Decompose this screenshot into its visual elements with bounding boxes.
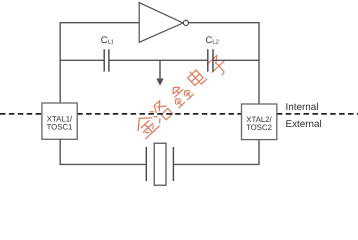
svg-text:TOSC2: TOSC2 bbox=[246, 123, 272, 132]
wire: right bottom (XTAL2 to crystal) bbox=[173, 140, 259, 165]
svg-text:Internal: Internal bbox=[286, 102, 319, 113]
wire: capacitor rail right segment bbox=[213, 59, 259, 61]
ground bbox=[156, 60, 163, 86]
inverter U1 bbox=[139, 3, 188, 43]
char 子 bbox=[206, 54, 231, 79]
wire: top-left horizontal (XTAL1 net to inverter input) bbox=[60, 22, 139, 24]
svg-text:External: External bbox=[286, 119, 322, 130]
wire: capacitor rail middle segment bbox=[109, 59, 208, 61]
crystal XTAL bbox=[146, 143, 173, 185]
capacitor CL1 bbox=[104, 49, 109, 71]
dashed internal/external boundary bbox=[0, 113, 358, 115]
wire: top-right horizontal (inverter output to XTAL2 net) bbox=[188, 22, 259, 24]
svg-text:TOSC1: TOSC1 bbox=[47, 122, 73, 131]
char 鑫 bbox=[166, 81, 193, 108]
char 电 bbox=[186, 67, 207, 88]
pin box XTAL2/TOSC2 bbox=[242, 104, 277, 140]
watermark 金洛鑫电子 bbox=[132, 54, 230, 139]
char 洛 bbox=[149, 100, 173, 125]
wire: right vertical (XTAL2 net) bbox=[258, 22, 260, 105]
wire: capacitor rail left segment bbox=[60, 59, 104, 61]
wire: left bottom (XTAL1 to crystal) bbox=[60, 139, 146, 164]
pin box XTAL1/TOSC1 bbox=[42, 103, 77, 139]
wire: left vertical (XTAL1 net) bbox=[59, 22, 61, 104]
char 金 bbox=[132, 112, 159, 139]
capacitor CL2 bbox=[208, 49, 213, 71]
